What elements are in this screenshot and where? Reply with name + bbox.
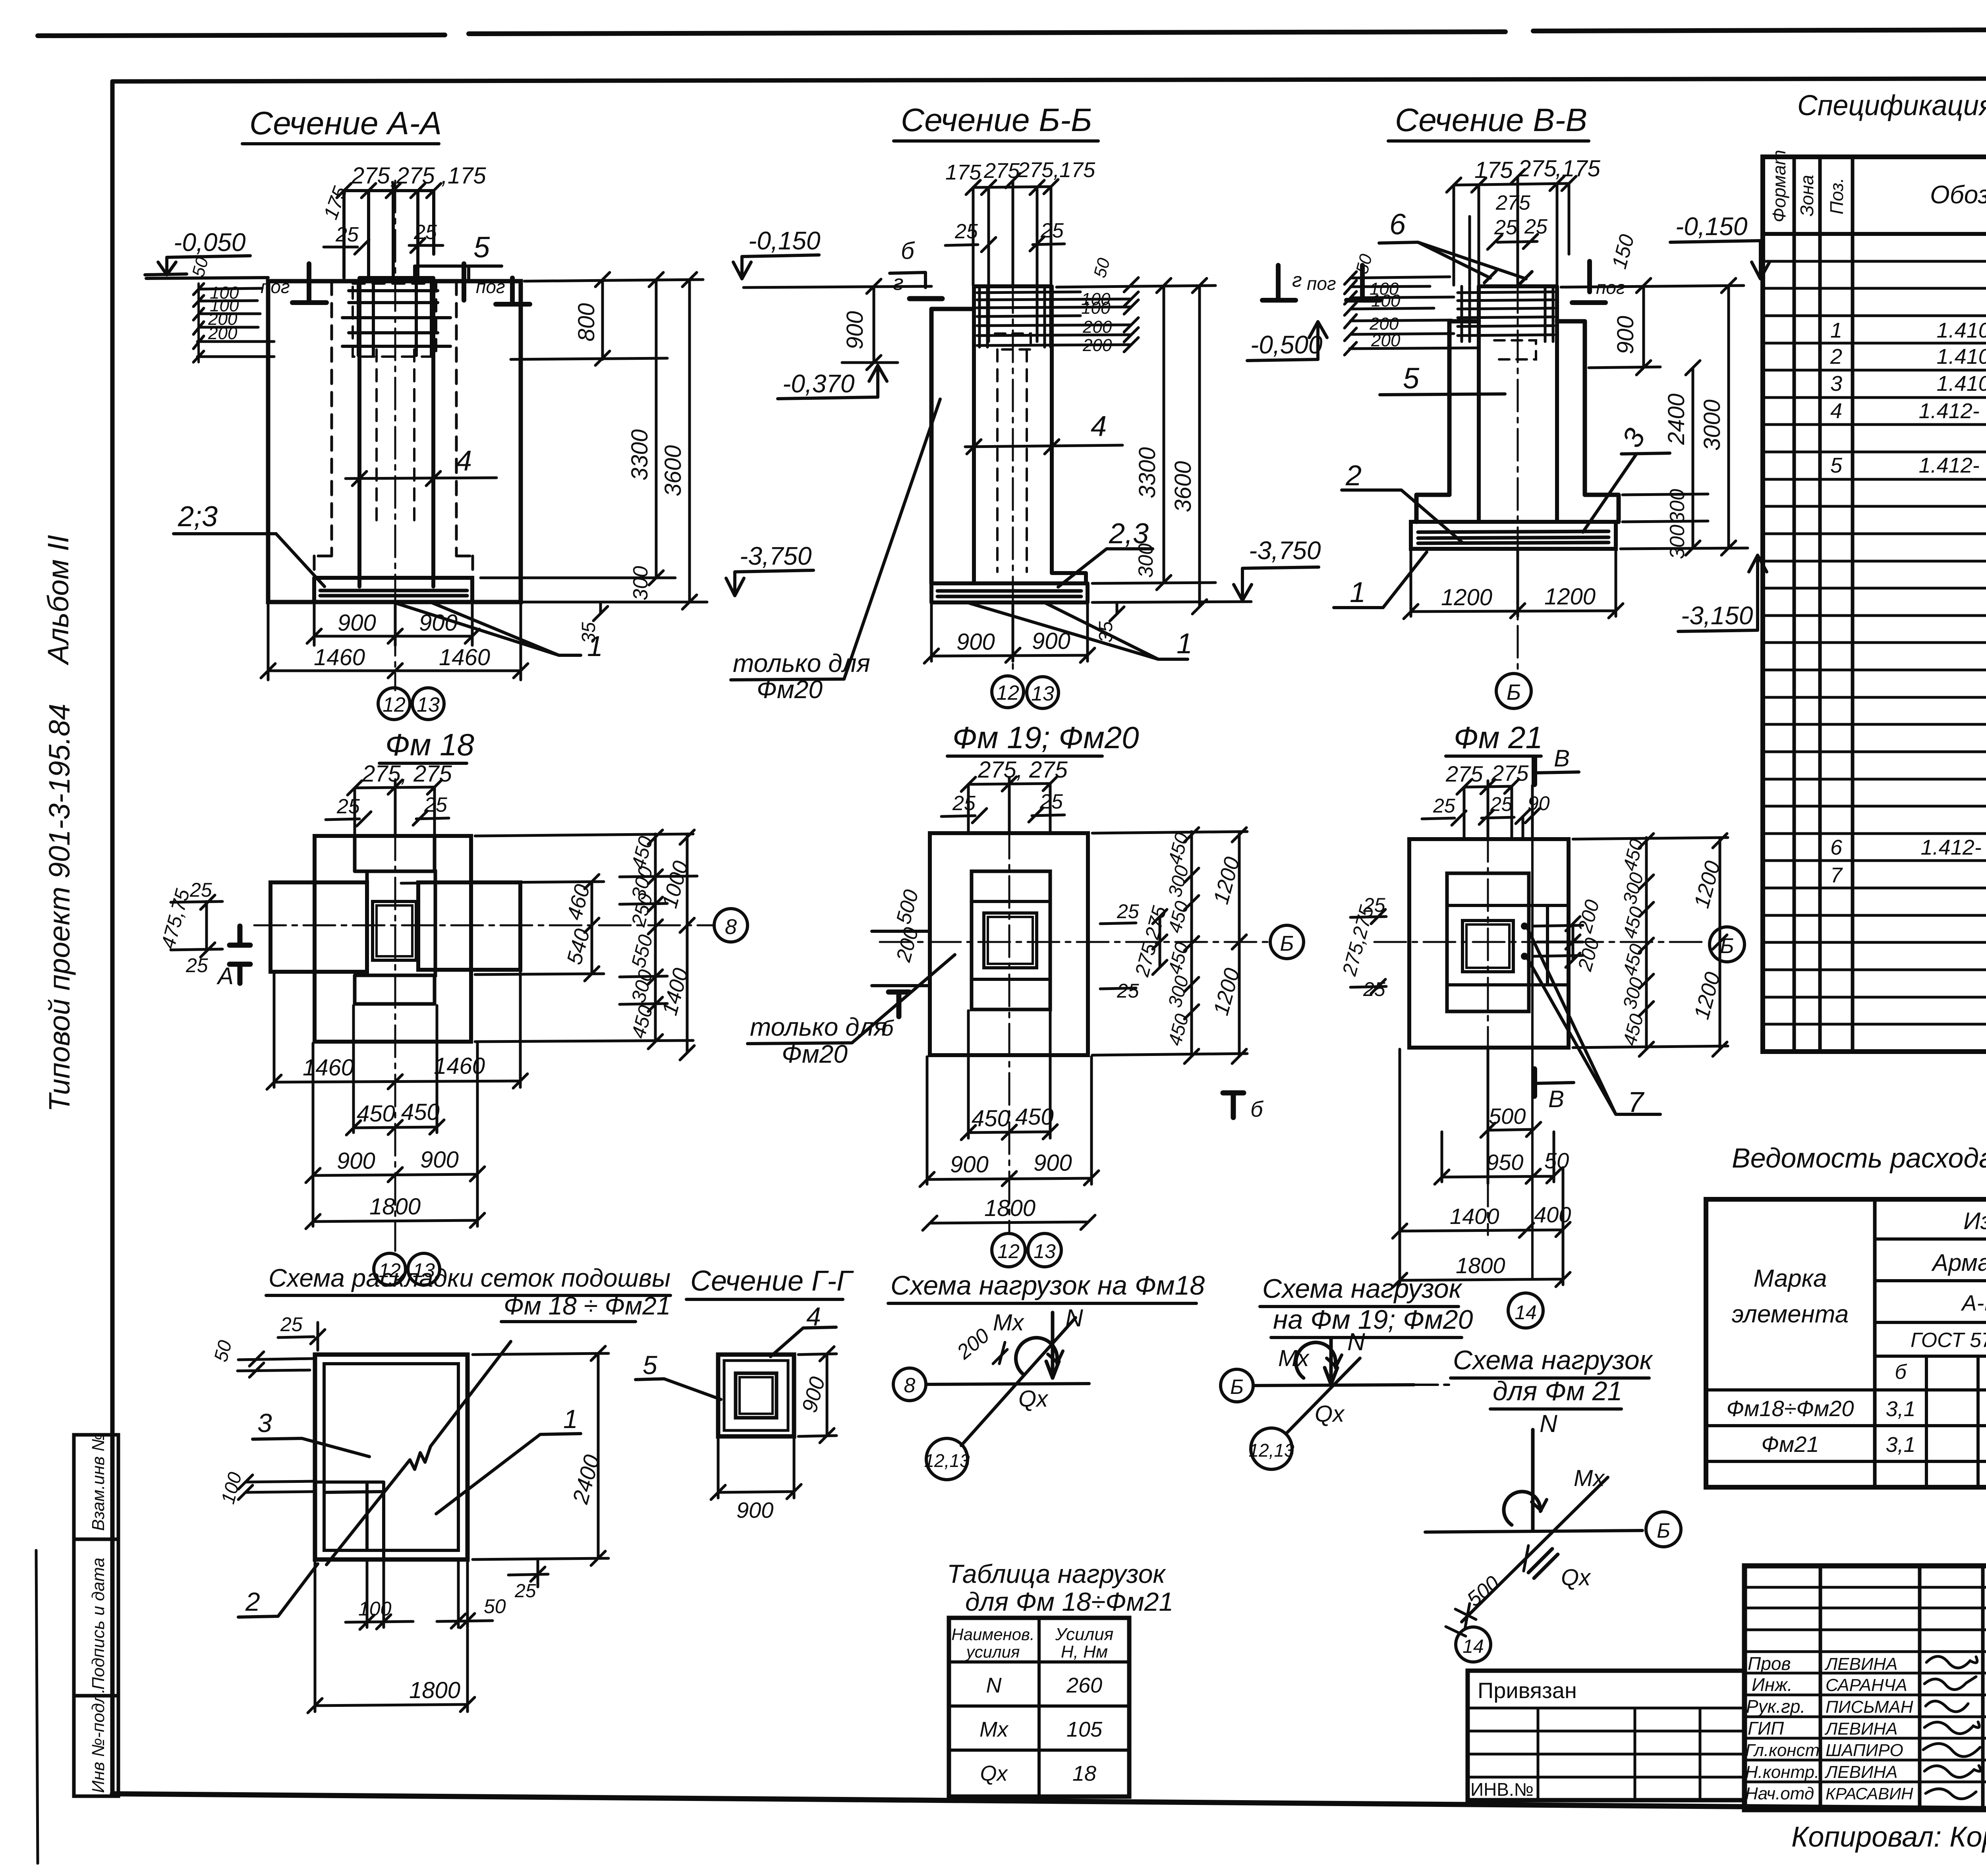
svg-text:Н, Нм: Н, Нм [1061,1642,1108,1662]
signature table rows [1745,1587,1986,1782]
svg-text:Mx: Mx [1278,1345,1310,1371]
svg-text:Схема нагрузок: Схема нагрузок [1453,1345,1654,1375]
svg-text:В: В [1554,745,1570,772]
section V-V top dim lines [1454,177,1569,285]
svg-text:Копировал: Корецкая: Копировал: Корецкая [1791,1821,1986,1853]
steel table main verticals [1875,1199,1986,1487]
section A-A bottom dim 900 900 [314,604,472,645]
load scheme Fm21 axis circle 14 [1456,1627,1491,1662]
svg-text:А: А [216,963,234,989]
svg-text:б: б [901,237,915,264]
svg-text:25: 25 [1117,980,1139,1002]
section V-V bottom dim 1200 1200 [1411,550,1616,616]
svg-text:-3,750: -3,750 [740,542,812,570]
section V-V right dim 3000 [1721,278,1736,555]
steel table subcolumn verticals [1926,1356,1986,1487]
section B-B right dim 3600 [1192,278,1207,614]
svg-text:Усилия: Усилия [1055,1625,1113,1644]
plan Fm19-20 dim 450 450 [961,1125,1057,1140]
svg-text:Гл.конст: Гл.конст [1745,1741,1820,1760]
left lower stamp strip boxes [74,1435,118,1539]
svg-text:Сечение А-А: Сечение А-А [249,105,442,141]
svg-text:-3,750: -3,750 [1249,536,1321,565]
mesh layout inner mesh frame [324,1364,458,1550]
plan Fm18 bottom pedestal notch [355,975,435,1004]
section G-G square outer [718,1355,794,1436]
svg-text:12: 12 [996,681,1019,704]
plan Fm18 outer contour [315,836,471,1042]
svg-text:2: 2 [1830,345,1842,369]
svg-text:Qx: Qx [980,1762,1008,1785]
mesh layout right dim 2400 [473,1346,609,1565]
svg-text:Сечение Б-Б: Сечение Б-Б [901,102,1092,138]
svg-text:275: 275 [1518,156,1557,181]
svg-text:900: 900 [338,610,376,636]
svg-text:25: 25 [189,879,212,901]
plan Fm19-20 pedestal [972,871,1050,1009]
svg-text:105: 105 [1066,1718,1103,1741]
svg-text:300: 300 [1134,543,1157,578]
svg-text:300: 300 [629,566,652,600]
load scheme Fm21 axis circle Б [1646,1512,1681,1547]
plan Fm19-20 vertical axis [1008,778,1010,1233]
title block outer [1745,1566,1986,1810]
svg-text:13: 13 [1031,682,1054,705]
svg-text:175: 175 [945,160,981,184]
plan Fm21 column squares [1462,921,1513,972]
svg-text:ГИП: ГИП [1748,1718,1784,1739]
svg-text:1200: 1200 [1544,584,1596,610]
plan Fm21 pedestal [1447,873,1529,1011]
section V-V column outline [1479,286,1557,522]
svg-text:Подпись и дата: Подпись и дата [89,1558,108,1690]
section A-A right ext lines [437,280,707,602]
svg-text:50: 50 [1544,1148,1569,1173]
section B-B top dim line and extensions [973,181,1051,342]
svg-text:3300: 3300 [1134,447,1160,498]
section A-A right dim 800 [595,272,610,365]
svg-text:Ведомость расхода стали на: Ведомость расхода стали на элемент, кГ [1732,1143,1986,1173]
svg-text:50: 50 [484,1595,506,1617]
svg-text:1800: 1800 [984,1195,1036,1221]
svg-text:1.410-2 Вып.1: 1.410-2 Вып.1 [1937,318,1986,342]
plan Fm19-20 right ext lines [1092,832,1247,1055]
svg-text:100: 100 [1371,291,1401,311]
svg-text:г: г [1292,269,1302,291]
svg-text:Б: Б [1507,679,1521,704]
svg-text:б: б [1250,1096,1264,1121]
svg-text:3,1: 3,1 [1886,1433,1915,1457]
svg-text:Б: Б [1657,1519,1670,1542]
svg-text:ШАПИРО: ШАПИРО [1826,1741,1903,1760]
plan Fm19-20 pedestal bands [972,901,1050,979]
section V-V right dim 900 [1636,278,1651,375]
svg-text:Фм18÷Фм20: Фм18÷Фм20 [1726,1396,1854,1421]
svg-text:25: 25 [185,954,208,977]
plan Fm19-20 section mark Б left [889,992,909,1017]
svg-text:35: 35 [1095,621,1117,643]
section A-A slab mesh bars [320,591,467,596]
section A-A dim 35 [593,602,608,621]
load scheme Fm21 moment Mx arc [1504,1492,1540,1525]
svg-text:300: 300 [1666,489,1689,523]
plan Fm21 right ext lines [1573,838,1728,1048]
mesh layout diagonal with break [326,1341,511,1565]
svg-text:Спецификация монолитных фунд: Спецификация монолитных фундаментов Фм18… [1797,90,1986,122]
plan Fm21 anchor bolts [1521,923,1528,930]
svg-text:Арматура класса: Арматура класса [1931,1249,1986,1276]
load scheme Fm19-20 moment Mx arc [1296,1342,1336,1378]
plan Fm21 dim 1800 [1393,1272,1570,1287]
section V-V slab mesh bars [1418,531,1609,543]
plan Fm21 section mark В top [1532,757,1537,784]
svg-text:275: 275 [1445,761,1483,786]
svg-text:Привязан: Привязан [1478,1678,1577,1703]
plan Fm19-20 dim 1800 [923,1215,1095,1230]
svg-text:Б: Б [1720,934,1734,958]
section G-G square inner [724,1361,788,1430]
plan Fm18 dim 1460 1460 [267,1074,527,1089]
privyazan verticals [1538,1708,1700,1800]
section B-B column outline [974,286,1086,583]
load table frame [949,1618,1129,1797]
privyazan rows [1468,1708,1745,1777]
plan Fm18 column core squares [373,901,416,960]
svg-text:13: 13 [417,693,440,716]
section A-A pit outline [268,281,521,602]
load scheme Fm18 horizontal axis [926,1384,1089,1384]
spec table outer frame [1763,157,1986,1052]
section V-V left step ladder [1350,277,1478,349]
svg-text:Фм21: Фм21 [1761,1432,1819,1457]
svg-text:2: 2 [245,1587,260,1616]
plan Fm18 horizontal axis [254,924,713,926]
section V-V pit walls [1416,321,1619,522]
svg-text:900: 900 [1034,1150,1072,1176]
svg-text:900: 900 [736,1498,773,1523]
svg-text:Mx: Mx [1574,1465,1605,1491]
section G-G column square [736,1373,777,1418]
svg-text:900: 900 [420,1147,459,1173]
svg-text:2: 2 [1345,460,1362,492]
mesh layout dim 1800 [308,1561,475,1713]
section B-B bottom dim 900 900 [931,604,1088,661]
svg-text:1400: 1400 [1450,1204,1499,1229]
svg-text:Наименов.: Наименов. [951,1625,1034,1644]
svg-text:N: N [1347,1328,1365,1356]
svg-text:Сечение Г-Г: Сечение Г-Г [690,1265,854,1297]
svg-text:100: 100 [358,1598,392,1620]
svg-text:ЛЕВИНА: ЛЕВИНА [1824,1719,1897,1739]
svg-text:3000: 3000 [1699,400,1725,451]
svg-text:Альбом II: Альбом II [42,535,75,666]
svg-text:1: 1 [1177,628,1192,660]
svg-text:для Фм 21: для Фм 21 [1493,1376,1622,1406]
plan Fm21 dim 1400 400 [1393,1222,1570,1238]
section B-B axis circles 12 13 [992,676,1024,708]
svg-text:3600: 3600 [1170,461,1196,512]
svg-text:пог: пог [1307,273,1336,294]
svg-text:6: 6 [1830,836,1843,859]
svg-text:175: 175 [1474,157,1513,183]
section B-B right ext lines [1057,286,1251,602]
svg-text:400: 400 [1534,1202,1571,1227]
svg-text:3,1: 3,1 [1886,1397,1915,1421]
plan Fm21 dim 1200 1200 [1713,834,1727,1056]
svg-text:12: 12 [383,693,406,716]
svg-text:25: 25 [1494,216,1518,239]
svg-text:1460: 1460 [439,645,490,670]
plan Fm19-20 outer contour [930,833,1088,1055]
load scheme Fm21 horizontal axis [1425,1531,1642,1532]
section V-V pog marks left [1262,265,1296,300]
svg-text:900: 900 [956,629,995,655]
plan Fm18 dim 450 450 [346,1120,444,1135]
load scheme Fm21 Qx double stroke [1528,1549,1558,1578]
svg-text:Таблица нагрузок: Таблица нагрузок [947,1559,1166,1588]
svg-text:ЛЕВИНА: ЛЕВИНА [1824,1654,1897,1674]
svg-text:6: 6 [1389,208,1406,241]
svg-text:900: 900 [1032,628,1070,654]
section A-A axis circles 12 13 [378,688,410,720]
section A-A left step dim ladder [197,288,274,357]
section B-B base slab [931,583,1088,602]
svg-text:Фм 21: Фм 21 [1454,720,1543,755]
plan Fm19-20 horizontal axis [880,941,1269,943]
svg-text:элемента: элемента [1732,1301,1849,1328]
svg-text:275,275 ,175: 275,275 ,175 [351,163,486,189]
svg-text:САРАНЧА: САРАНЧА [1826,1675,1907,1695]
plan Fm19-20 dim column 450 300 450 450 300 450 [1184,828,1199,1063]
plan Fm21 vertical axis [1487,781,1489,1235]
svg-text:В: В [1548,1086,1564,1112]
plan Fm21 section line V-V vertical [1531,839,1534,1048]
plan Fm18 bottom ext verticals [274,972,520,1226]
plan Fm21 dim 950 50 [1435,1169,1561,1184]
svg-text:Фм 18 ÷ Фм21: Фм 18 ÷ Фм21 [504,1291,670,1320]
plan Fm18 right ext lines [401,834,697,1042]
svg-text:1.412- 1/77 Вып.3: 1.412- 1/77 Вып.3 [1921,836,1986,859]
svg-text:1.412- 1/77 Вып.3: 1.412- 1/77 Вып.3 [1919,454,1986,477]
plan Fm21 pedestal bands [1447,905,1569,985]
signature table verticals [1820,1566,1986,1810]
plan Fm19-20 dim 1200 1200 [1232,828,1246,1063]
svg-text:б: б [1895,1361,1907,1384]
svg-text:А-I: А-I [1961,1290,1986,1315]
svg-text:8: 8 [725,915,737,939]
svg-text:г: г [893,271,904,295]
svg-text:8: 8 [904,1374,916,1397]
svg-text:14: 14 [1515,1301,1537,1324]
svg-text:500: 500 [1489,1104,1526,1129]
plan Fm21 dim 500 [1481,1122,1541,1137]
section B-B right step ladder [1057,299,1131,345]
svg-text:Б: Б [1230,1376,1244,1399]
svg-text:5: 5 [1403,362,1420,395]
svg-text:ГОСТ 5781-82: ГОСТ 5781-82 [1911,1329,1986,1352]
svg-text:Схема нагрузок: Схема нагрузок [1262,1274,1463,1304]
svg-text:ЛЕВИНА: ЛЕВИНА [1824,1762,1897,1782]
load scheme Fm18 diagonal axis [961,1318,1076,1446]
svg-text:-0,370: -0,370 [782,369,855,398]
section B-B anchor dashed box [995,334,1031,349]
svg-text:4: 4 [456,445,472,477]
svg-text:900: 900 [1613,316,1638,354]
svg-text:N: N [1065,1305,1083,1332]
svg-text:950: 950 [1486,1150,1523,1175]
plan Fm18 right wing block [418,882,520,970]
svg-text:800: 800 [574,303,599,342]
plan Fm21 section mark В bottom [1532,1069,1537,1096]
svg-text:25: 25 [1117,900,1139,923]
section A-A base slab [314,578,472,602]
svg-text:1.410-2 Вып.1: 1.410-2 Вып.1 [1937,372,1986,396]
load scheme Fm19-20 diagonal axis [1286,1358,1360,1434]
plan Fm18 axis circle 8 [714,909,748,942]
svg-text:N: N [986,1673,1002,1697]
plan Fm21 axis circle 14 [1508,1293,1543,1328]
load scheme Fm19-20 axis circle Б [1221,1369,1253,1402]
privyazan box outer [1468,1671,1745,1800]
section B-B rebar grid top [977,292,1131,345]
svg-text:1460: 1460 [434,1053,485,1079]
svg-text:Инж.: Инж. [1752,1674,1793,1695]
section V-V rebar grid top [1458,292,1554,336]
svg-text:ИНВ.№: ИНВ.№ [1470,1779,1534,1800]
plan Fm21 right dims 200 200 [1533,917,1583,967]
load scheme Fm18 moment Mx arc [1016,1338,1057,1375]
svg-text:12: 12 [997,1240,1020,1262]
svg-text:25: 25 [280,1313,303,1336]
svg-text:25: 25 [335,223,359,246]
svg-text:5: 5 [643,1350,657,1380]
load scheme Fm19-20 horizontal axis [1254,1385,1414,1386]
section B-B center axis [1012,183,1014,675]
section A-A top dim line [344,183,434,278]
svg-text:N: N [1540,1410,1557,1438]
spec table row lines [1763,234,1986,1052]
svg-text:Mx: Mx [979,1718,1009,1741]
svg-text:18: 18 [1072,1762,1096,1785]
svg-text:300: 300 [1666,525,1689,559]
svg-text:13: 13 [1034,1240,1056,1262]
mesh layout dims 100 50 bottom [346,1561,493,1627]
svg-text:1800: 1800 [1456,1253,1505,1278]
svg-text:900: 900 [337,1148,375,1174]
svg-text:-3,150: -3,150 [1681,601,1753,630]
plan Fm21 dim column 450 300 450 450 300 450 [1639,834,1654,1056]
svg-text:450: 450 [1015,1104,1054,1130]
plan Fm19-20 left stub lines [872,931,930,986]
section B-B dim 35 [1110,602,1124,621]
section A-A anchor dashed box [353,284,436,357]
svg-text:1800: 1800 [409,1677,460,1703]
svg-text:4: 4 [1830,399,1842,423]
svg-text:Сечение В-В: Сечение В-В [1395,102,1587,138]
svg-text:3: 3 [1830,372,1842,396]
svg-text:Формат: Формат [1769,150,1789,222]
svg-text:4: 4 [1091,411,1107,442]
svg-text:450: 450 [972,1106,1010,1131]
svg-text:1460: 1460 [314,645,365,670]
section B-B bolt dashed lines [997,349,1027,572]
svg-text:Зона: Зона [1797,175,1817,216]
plan Fm19-20 bottom ext verticals [927,1011,1092,1184]
svg-text:25: 25 [514,1581,536,1602]
svg-text:на Фм 19; Фм20: на Фм 19; Фм20 [1273,1305,1473,1335]
svg-text:3600: 3600 [660,445,686,496]
top scan line [38,29,1986,36]
svg-text:1800: 1800 [369,1194,421,1220]
section A-A ground line left [146,278,268,278]
plan Fm21 axis circle Б [1710,927,1745,962]
svg-text:-0,150: -0,150 [748,226,821,255]
section V-V right ext lines [1561,286,1748,549]
section A-A bottom dim 1460 1460 [268,604,521,680]
section A-A center axis [394,181,396,690]
plan Fm18 section mark A [230,926,250,983]
svg-text:1.410-2 Вып.1: 1.410-2 Вып.1 [1937,345,1986,369]
svg-text:25: 25 [413,221,437,244]
plan Fm18 dim 1000 1400 [680,830,694,1060]
section B-B left dim 900 [744,279,931,370]
section A-A right dim 3300 [649,272,663,585]
plan Fm18 vertical axis [394,779,396,1251]
svg-text:3300: 3300 [627,429,653,481]
svg-text:Инв №-подл.: Инв №-подл. [89,1689,108,1793]
section V-V axis circle B [1496,674,1531,708]
svg-text:для Фм 18÷Фм21: для Фм 18÷Фм21 [965,1587,1173,1616]
plan Fm21 bottom ext verticals [1400,1049,1563,1285]
svg-text:12,13: 12,13 [924,1450,970,1471]
plan Fm18 dim 1800 [306,1213,485,1229]
svg-text:ПИСЬМАН: ПИСЬМАН [1826,1697,1913,1717]
svg-text:Qx: Qx [1315,1401,1345,1427]
svg-text:Нач.отд: Нач.отд [1745,1784,1814,1803]
spec table column lines [1794,157,1986,1052]
svg-text:7: 7 [1830,863,1843,887]
plan Fm18 top pedestal notch [355,836,435,871]
svg-text:Б: Б [1280,932,1294,955]
svg-text:КРАСАВИН: КРАСАВИН [1826,1784,1913,1803]
svg-text:1200: 1200 [1441,585,1492,610]
svg-text:Схема раскладки сеток подошвы: Схема раскладки сеток подошвы [269,1264,670,1292]
spec table header row line [1763,232,1986,236]
svg-text:только для: только для [750,1013,887,1041]
load scheme Fm18 force N arrow [1046,1312,1059,1378]
svg-text:25: 25 [954,220,978,243]
plan Fm18 bottom axis circles 12 13 [374,1253,406,1285]
svg-text:450: 450 [401,1099,440,1125]
svg-text:200: 200 [208,324,238,343]
svg-text:1460: 1460 [303,1055,354,1081]
svg-text:1.412- 1/77 Вып.3: 1.412- 1/77 Вып.3 [1919,399,1986,423]
plan Fm19-20 axis circle Б [1270,925,1304,959]
plan Fm18 dim column 450 300 250 550 300 450 [648,830,663,1049]
plan Fm18 dim 460 540 [585,874,599,981]
svg-text:900: 900 [950,1152,989,1177]
plan Fm19-20 column squares [984,913,1037,968]
svg-text:200: 200 [1082,336,1112,355]
load scheme Fm18 axis circle 12 13 [926,1438,968,1480]
svg-text:260: 260 [1066,1673,1102,1697]
section A-A right dim 3600 [682,272,697,609]
load scheme Fm19-20 force N arrow [1325,1338,1337,1384]
section G-G bottom dim 900 [711,1438,801,1500]
plan Fm19-20 dim 900 900 [920,1171,1099,1187]
section G-G right dim 900 [798,1347,837,1443]
svg-text:1: 1 [563,1404,578,1434]
